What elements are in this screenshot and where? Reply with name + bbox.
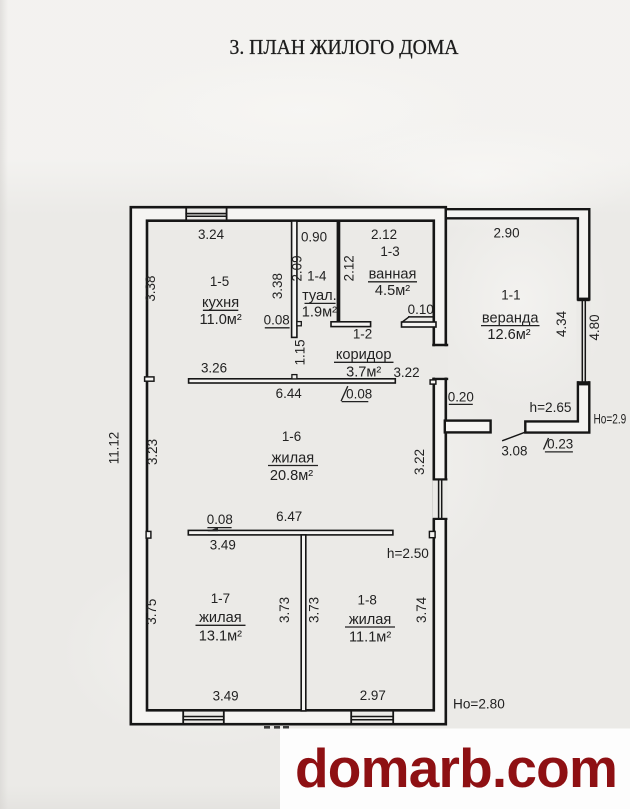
svg-text:туал.: туал.: [302, 288, 337, 304]
svg-text:кухня: кухня: [202, 295, 239, 311]
svg-text:2.90: 2.90: [493, 226, 519, 241]
svg-text:1-3: 1-3: [380, 244, 399, 259]
middle partition right wall tick: [429, 531, 435, 537]
svg-text:жилая: жилая: [199, 610, 241, 626]
svg-text:3.38: 3.38: [270, 273, 285, 299]
window in top wall: mid lines: [186, 213, 226, 215]
svg-text:3.74: 3.74: [414, 596, 429, 623]
toilet left wall tick: [297, 322, 301, 326]
corridor north wall piece 1 (below toilet): [331, 322, 371, 327]
window 1 in bottom wall: erase: [183, 712, 224, 722]
veranda window mid lines: [581, 300, 583, 383]
cap of right wall below door: [433, 378, 447, 380]
svg-text:3.22: 3.22: [412, 449, 427, 475]
svg-text:3.38: 3.38: [143, 276, 158, 302]
svg-text:11.12: 11.12: [106, 432, 121, 465]
clipped digits above watermark: [264, 726, 270, 729]
svg-text:3. ПЛАН ЖИЛОГО ДОМА: 3. ПЛАН ЖИЛОГО ДОМА: [230, 35, 459, 59]
bathroom door swing diagonal: [402, 317, 409, 322]
svg-text:13.1м²: 13.1м²: [199, 628, 242, 644]
svg-text:1-8: 1-8: [358, 593, 377, 608]
svg-text:2.97: 2.97: [360, 688, 386, 703]
svg-text:3.49: 3.49: [210, 538, 236, 553]
svg-text:4.80: 4.80: [587, 314, 602, 340]
svg-text:коридор: коридор: [336, 347, 392, 363]
window 2 in bottom wall: erase: [351, 712, 393, 722]
middle partition left wall tick: [146, 531, 151, 538]
svg-text:domarb.com: domarb.com: [295, 737, 617, 799]
svg-text:Но=2.80: Но=2.80: [453, 697, 505, 712]
window 1 bottom wall mid lines: [183, 716, 224, 718]
window in veranda right wall: erase: [576, 301, 591, 382]
svg-text:12.6м²: 12.6м²: [487, 327, 530, 343]
window in right wall (room 1-6): erase: [433, 480, 448, 518]
svg-text:2.12: 2.12: [371, 227, 397, 242]
svg-text:1-4: 1-4: [307, 268, 327, 283]
svg-text:0.08: 0.08: [346, 387, 372, 402]
svg-text:0.90: 0.90: [301, 230, 327, 245]
svg-text:1.9м²: 1.9м²: [302, 305, 337, 321]
svg-text:3.08: 3.08: [501, 444, 527, 459]
svg-text:3.73: 3.73: [306, 597, 321, 623]
svg-text:жилая: жилая: [349, 612, 391, 628]
svg-text:4.34: 4.34: [554, 310, 569, 337]
kitchen partition right wall tick: [430, 380, 436, 384]
corridor north wall piece 2 (below bathroom, with door): [402, 322, 437, 327]
svg-text:3.49: 3.49: [213, 688, 239, 703]
svg-text:3.24: 3.24: [198, 227, 225, 242]
svg-text:3.75: 3.75: [144, 599, 159, 625]
window 2 bottom wall end caps: [350, 711, 352, 724]
veranda wall band (top + right + bottom piece): [446, 209, 590, 432]
toilet left wall: [292, 221, 297, 337]
svg-text:3.7м²: 3.7м²: [346, 365, 381, 381]
svg-text:20.8м²: 20.8м²: [270, 468, 313, 484]
svg-text:1-6: 1-6: [282, 429, 301, 444]
svg-text:1.15: 1.15: [292, 339, 307, 365]
svg-text:0.08: 0.08: [264, 313, 290, 328]
svg-text:1-2: 1-2: [353, 326, 372, 341]
svg-text:11.0м²: 11.0м²: [199, 312, 241, 328]
svg-text:6.44: 6.44: [276, 386, 303, 401]
main house inner wall outline: [147, 221, 434, 711]
window 1 bottom wall end caps: [182, 711, 184, 724]
right wall window mid lines: [438, 480, 440, 520]
svg-text:3.22: 3.22: [393, 365, 419, 380]
middle partition wall (south of room 1-6): [188, 530, 393, 535]
svg-text:ванная: ванная: [369, 267, 417, 283]
svg-text:1-7: 1-7: [211, 591, 230, 606]
svg-text:2.12: 2.12: [341, 255, 356, 281]
cap of right wall above door: [433, 344, 447, 346]
svg-text:Но=2.9: Но=2.9: [594, 411, 627, 427]
svg-text:6.47: 6.47: [276, 509, 302, 524]
toilet right wall: [337, 221, 341, 322]
partition between rooms 1-7 and 1-8: [301, 535, 306, 711]
svg-text:0.20: 0.20: [448, 390, 474, 405]
svg-text:3.26: 3.26: [201, 360, 227, 375]
svg-text:жилая: жилая: [272, 450, 314, 466]
svg-text:0.10: 0.10: [408, 302, 434, 317]
main house outer wall outline: [131, 207, 446, 724]
veranda entry opening leader diagonal: [503, 432, 526, 441]
toilet wall end tick above partition: [292, 375, 297, 379]
svg-text:2.09: 2.09: [289, 255, 304, 281]
svg-text:0.08: 0.08: [207, 512, 233, 527]
svg-text:3.73: 3.73: [277, 597, 292, 623]
right wall window end caps: [434, 478, 446, 480]
svg-text:1-1: 1-1: [501, 288, 520, 303]
door opening in right wall (corridor to veranda): erase: [432, 346, 448, 377]
svg-text:веранда: веранда: [482, 310, 540, 326]
watermark white box: [280, 729, 630, 809]
window in top wall (kitchen): erase: [186, 209, 226, 219]
svg-text:h=2.50: h=2.50: [387, 546, 429, 561]
veranda window end caps: [577, 298, 589, 302]
bathroom door leaf line: [409, 316, 433, 318]
svg-text:0.23: 0.23: [547, 437, 573, 452]
svg-text:4.5м²: 4.5м²: [375, 283, 410, 299]
svg-text:3.23: 3.23: [145, 439, 160, 465]
svg-text:11.1м²: 11.1м²: [349, 629, 391, 645]
window in top wall: end caps: [185, 208, 187, 221]
passage wall piece between house and veranda: [445, 421, 491, 433]
kitchen partition left wall tick: [145, 377, 154, 381]
svg-text:1-5: 1-5: [210, 274, 229, 289]
svg-text:h=2.65: h=2.65: [530, 400, 572, 415]
window 2 bottom wall mid lines: [351, 716, 393, 718]
kitchen south partition wall: [189, 379, 396, 383]
